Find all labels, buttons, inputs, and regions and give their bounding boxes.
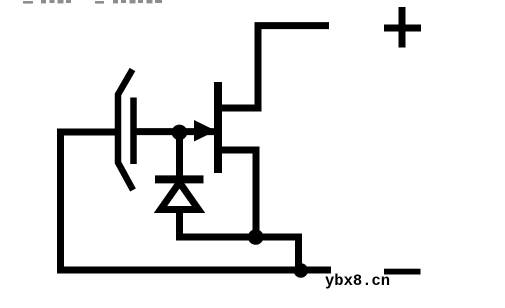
wire: left plate to left rail and down to bottom rail (61, 132, 116, 270)
electret capacitor left plate (curved) (118, 70, 133, 191)
JFET Q1 gate wire (136, 128, 214, 135)
junction dot: bottom rail node (294, 263, 308, 277)
diode D1 wire from gate node (176, 132, 183, 179)
svg-text:ybx8.cn: ybx8.cn (325, 272, 390, 290)
JFET Q1 channel bar (214, 82, 222, 173)
wire: V+ rail to JFET drain (218, 26, 329, 108)
negative terminal - (384, 269, 421, 275)
junction dot: source node (248, 229, 264, 245)
diode D1 cathode bar (155, 175, 204, 183)
JFET Q1 source lead + wire down (218, 150, 256, 237)
positive terminal + (384, 7, 421, 48)
diode D1 anode triangle (outline) (161, 183, 199, 210)
wire: diode anode down, right to source node, down to bottom rail (180, 210, 299, 271)
electret capacitor right plate (130, 98, 137, 165)
bottom rail wire (57, 267, 331, 274)
JFET Q1 gate arrowhead (194, 120, 216, 142)
clipped caption text fragments (top edge) (23, 0, 162, 4)
junction dot: gate node (172, 125, 188, 141)
